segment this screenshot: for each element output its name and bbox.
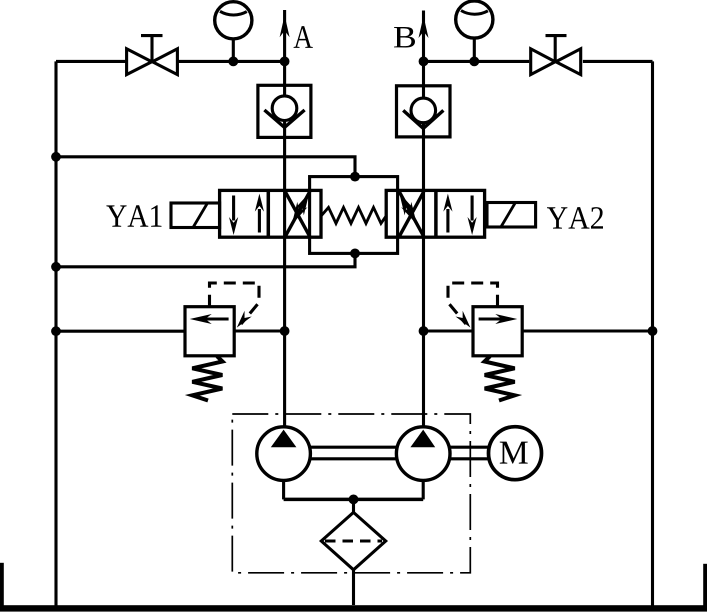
solenoid YA2 bbox=[487, 203, 536, 228]
gauge PG1 bbox=[215, 2, 252, 39]
junction right border relief bbox=[648, 326, 658, 336]
junction left border pilot top bbox=[51, 152, 61, 162]
DV2 X arrows bbox=[399, 192, 424, 237]
relief valve RV2 bbox=[473, 307, 522, 356]
suction lines bbox=[282, 481, 285, 500]
junction A relief bbox=[280, 326, 290, 336]
junction gauge PG1 tap bbox=[228, 57, 238, 67]
motor M bbox=[489, 427, 542, 480]
node B top bbox=[419, 57, 429, 67]
wire top-left bbox=[56, 60, 126, 63]
pilot line top bbox=[56, 157, 355, 177]
DV1 up arrow bbox=[258, 209, 261, 233]
DV2 down arrow bbox=[471, 196, 474, 221]
junction suction manifold bbox=[349, 495, 359, 505]
solenoid YA1 bbox=[171, 203, 220, 228]
check valve CV1 bbox=[258, 85, 311, 137]
junction left border relief bbox=[51, 326, 61, 336]
DV1 X arrows bbox=[285, 192, 310, 237]
junction gauge PG2 tap bbox=[469, 57, 479, 67]
junction pilot chamber bottom bbox=[350, 249, 360, 259]
tank bbox=[0, 605, 707, 611]
gauge PG2 bbox=[456, 1, 493, 38]
wire valveA to lineA bbox=[178, 60, 284, 63]
wire left border bbox=[54, 61, 57, 606]
DV1 down arrow bbox=[232, 196, 235, 221]
wire lineB to valveB bbox=[424, 60, 530, 63]
RV1 pilot dashed bbox=[210, 283, 260, 324]
pilot chamber rect bbox=[310, 177, 398, 254]
shutoff valve V1 bbox=[150, 37, 153, 62]
pilot line bottom bbox=[56, 253, 355, 266]
line A arrow bbox=[280, 15, 290, 37]
drive shaft bbox=[311, 446, 397, 449]
junction left border pilot bottom bbox=[51, 262, 61, 272]
centering spring bbox=[322, 207, 387, 223]
label YA2 bbox=[547, 207, 603, 229]
wire valveB to right border bbox=[583, 60, 653, 63]
label M bbox=[500, 442, 528, 464]
power unit enclosure bbox=[232, 414, 470, 573]
relief valve RV1 bbox=[185, 307, 234, 356]
label A bbox=[294, 26, 313, 48]
shutoff valve V2 bbox=[554, 37, 557, 62]
check valve CV2 bbox=[397, 86, 451, 137]
wire right border bbox=[651, 61, 654, 606]
pump P2 bbox=[396, 427, 450, 481]
DV2 up arrow bbox=[446, 209, 449, 233]
line A vertical bbox=[283, 10, 286, 427]
label YA1 bbox=[106, 205, 161, 227]
junction B relief bbox=[419, 326, 429, 336]
junction pilot chamber top bbox=[350, 172, 360, 182]
RV1 spring bbox=[192, 356, 222, 400]
wire relief left bbox=[56, 330, 185, 333]
line B vertical bbox=[422, 11, 425, 427]
filter F1 bbox=[321, 512, 385, 569]
valve DV1 body bbox=[220, 190, 321, 237]
line B arrow bbox=[419, 16, 429, 38]
label B bbox=[394, 27, 415, 48]
drain to tank bbox=[352, 570, 355, 605]
valve DV2 body bbox=[386, 190, 484, 237]
RV2 spring bbox=[485, 356, 515, 400]
node A top bbox=[280, 57, 290, 67]
pump P1 bbox=[257, 427, 311, 481]
wire relief right bbox=[424, 329, 474, 332]
RV2 pilot dashed bbox=[448, 283, 498, 324]
